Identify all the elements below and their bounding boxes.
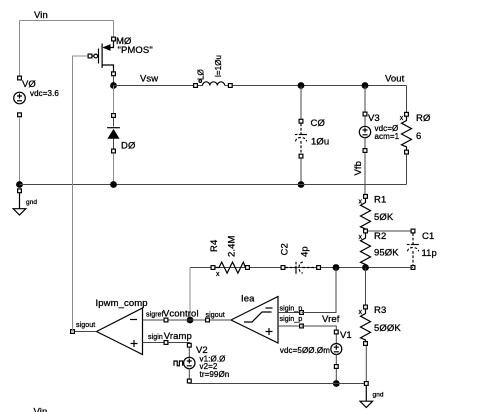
svg-text:5ØK: 5ØK	[374, 212, 394, 223]
capacitor C2	[280, 243, 321, 274]
wire top rail Vin	[20, 20, 114, 22]
svg-text:5ØØK: 5ØØK	[374, 323, 401, 334]
wire left vertical to V0	[19, 21, 21, 79]
transistor M0 PMOS	[88, 36, 153, 76]
node junction D0/gnd rail	[110, 181, 117, 188]
svg-text:11p: 11p	[422, 248, 437, 259]
svg-text:Vsw: Vsw	[140, 74, 158, 85]
wire L0 to Vout corner	[233, 85, 407, 87]
svg-text:C2: C2	[280, 243, 291, 255]
svg-text:sigin_n: sigin_n	[280, 306, 303, 313]
resistor R2	[359, 231, 400, 269]
svg-text:Vfb: Vfb	[353, 161, 364, 176]
node junction V3 top	[362, 82, 369, 89]
node Vcontrol junction	[187, 317, 194, 324]
svg-text:sigout: sigout	[76, 322, 95, 329]
wire D0 branch	[113, 86, 115, 114]
svg-text:Iea: Iea	[241, 294, 255, 305]
svg-text:Vout: Vout	[385, 74, 405, 85]
wire ground rail	[20, 184, 407, 186]
svg-text:gnd: gnd	[373, 392, 384, 399]
wire M0 drain to Vsw	[113, 76, 115, 85]
wire M0 source from rail	[113, 21, 115, 40]
node Vsw junction	[110, 82, 117, 89]
wire V2 bottom rail	[189, 382, 364, 384]
svg-text:6: 6	[416, 131, 421, 142]
node junction C0/gnd rail	[298, 181, 305, 188]
svg-text:sigout: sigout	[206, 312, 225, 319]
resistor R1	[359, 195, 394, 232]
svg-text:gnd: gnd	[26, 199, 37, 206]
svg-text:tr=99Øn: tr=99Øn	[200, 370, 230, 379]
svg-text:V1: V1	[340, 330, 352, 341]
svg-text:Vref: Vref	[322, 314, 340, 325]
wire R2 to R3	[365, 268, 367, 305]
wire gate net comparator to M0	[73, 56, 88, 332]
svg-text:x: x	[400, 115, 404, 122]
svg-text:Vcontrol: Vcontrol	[163, 309, 199, 320]
voltage source V0	[14, 76, 60, 117]
node R1/R2 junction	[364, 229, 368, 233]
resistor R3	[359, 305, 402, 345]
node junction sigin_n tap	[333, 264, 340, 271]
wire Vramp net to V2	[168, 342, 189, 345]
resistor R4	[209, 235, 249, 278]
wire Vout corner to R0	[406, 86, 408, 114]
ground gnd left	[13, 189, 37, 215]
wire R3 bottom to gnd	[365, 346, 367, 384]
wire R0 bottom to rail corner	[406, 154, 408, 184]
svg-text:sigin: sigin	[148, 334, 163, 341]
wire V1 bottom to rail	[335, 369, 337, 384]
svg-text:R2: R2	[374, 231, 386, 242]
svg-text:C1: C1	[422, 231, 434, 242]
svg-text:95ØK: 95ØK	[374, 248, 399, 259]
inductor L0	[194, 55, 233, 87]
wire R1R2 to C1	[368, 230, 411, 232]
svg-text:RØ: RØ	[416, 113, 431, 124]
svg-text:2.4M: 2.4M	[227, 235, 238, 257]
svg-text:sigref: sigref	[146, 312, 164, 319]
svg-text:acm=1: acm=1	[375, 132, 400, 141]
svg-text:"PMOS": "PMOS"	[118, 45, 153, 56]
wire C0 branch	[300, 86, 302, 120]
voltage source V2	[174, 343, 229, 383]
svg-text:1Øu: 1Øu	[311, 137, 329, 148]
svg-text:LØ: LØ	[197, 69, 206, 80]
node junction V1/rail	[333, 380, 340, 387]
wire Vfb V3 to R1	[364, 153, 366, 196]
wire V3 branch	[364, 86, 366, 112]
resistor R0	[400, 112, 431, 154]
wire sigin_p to V1	[302, 326, 337, 330]
ground gnd right	[360, 382, 384, 408]
capacitor C1	[407, 229, 437, 269]
capacitor C0	[295, 118, 329, 158]
node junction R2 bottom	[362, 264, 369, 271]
svg-text:V3: V3	[368, 113, 380, 124]
svg-text:Vramp: Vramp	[164, 331, 192, 342]
wire sigin_n to feedback node	[302, 268, 337, 313]
svg-text:Ipwm_comp: Ipwm_comp	[96, 298, 148, 309]
svg-text:Vin: Vin	[34, 406, 48, 412]
voltage source V3	[359, 112, 399, 152]
svg-text:DØ: DØ	[121, 141, 136, 152]
svg-text:l=1Øu: l=1Øu	[214, 55, 223, 77]
svg-text:vdc=5ØØ.Øm: vdc=5ØØ.Øm	[280, 346, 330, 355]
wire feedback rail	[190, 267, 413, 269]
wire D0 bottom to rail	[113, 153, 115, 184]
wire C0 bottom to rail	[300, 158, 302, 184]
svg-text:R4: R4	[209, 240, 220, 252]
svg-text:sigin_p: sigin_p	[280, 316, 303, 323]
op-amp Ipwm_comp	[71, 298, 168, 355]
svg-text:Vin: Vin	[34, 10, 48, 21]
svg-text:x: x	[216, 271, 220, 278]
diode D0	[107, 114, 136, 153]
op-amp Iea	[206, 294, 304, 344]
svg-text:CØ: CØ	[311, 118, 326, 129]
svg-text:R3: R3	[374, 305, 386, 316]
voltage source V1	[280, 330, 352, 368]
svg-text:vdc=3.6: vdc=3.6	[30, 89, 59, 98]
svg-text:4p: 4p	[300, 246, 311, 257]
node junction V0/gnd	[16, 181, 23, 188]
wire Vcontrol to ea output	[168, 319, 207, 321]
wire V0 bottom to ground rail	[19, 117, 21, 184]
svg-text:R1: R1	[374, 195, 386, 206]
node junction C0 top	[298, 82, 305, 89]
wire Vsw to L0	[114, 85, 196, 87]
wire Vcontrol vertical	[189, 268, 191, 321]
